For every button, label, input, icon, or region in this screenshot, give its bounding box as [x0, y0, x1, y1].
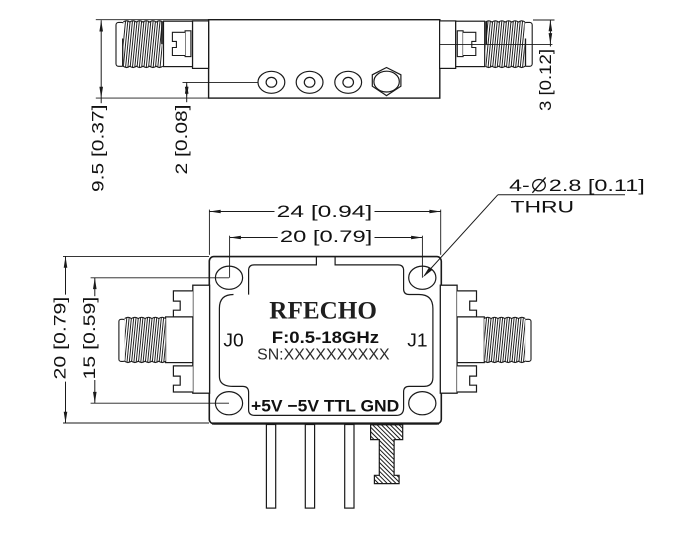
top view: right connector centre line: [440, 43, 553, 45]
svg-text:3 [0.12]: 3 [0.12]: [537, 49, 555, 111]
dimension 20 [0.79] top extension lines: [229, 236, 231, 278]
top view: right SMA slot insert outer: [457, 31, 463, 57]
svg-text:J0: J0: [223, 331, 243, 351]
front view: thick bottom edge: [212, 422, 439, 424]
dimension 9.5 [0.37] extension lines: [96, 19, 209, 21]
dimension 2 [0.08] extension line: [183, 81, 259, 83]
dimension 20 [0.79] left line and arrows: [65, 256, 67, 294]
top view: feed-through pin 3: [335, 71, 362, 93]
front view: left SMA threads: [119, 319, 125, 361]
front view: mounting hole top-left: [215, 266, 242, 289]
front view: right SMA flange: [440, 285, 457, 393]
front view: right SMA bottom mounting tab: [457, 366, 476, 392]
front view: mounting hole top-right: [409, 266, 436, 289]
svg-text:RFECHO: RFECHO: [269, 297, 377, 324]
dimension 3 [0.12] line and arrows: [549, 20, 551, 47]
front view: pin 2 (-5V): [305, 425, 314, 509]
svg-text:2 [0.08]: 2 [0.08]: [173, 105, 191, 175]
top view: right thread hatch: [484, 21, 528, 67]
front view: lid inner outline (top-left piece with tab cut): [249, 257, 317, 295]
front view: right thread hatch: [482, 318, 528, 362]
front view: right SMA bushing: [457, 317, 484, 363]
top view: feed-through pin 1: [258, 71, 285, 93]
top view: left thread start lines: [122, 39, 124, 67]
svg-text:SN:XXXXXXXXXX: SN:XXXXXXXXXX: [257, 346, 390, 363]
front view: pin 3 (TTL): [345, 425, 354, 509]
svg-text:20 [0.79]: 20 [0.79]: [52, 297, 70, 380]
front view: left SMA bottom mounting tab: [173, 366, 192, 392]
front view: pin 1 (+5V): [266, 425, 275, 509]
dimension 15 [0.59] line and arrows: [94, 278, 96, 296]
dimension 20 [0.79] top line and arrows: [230, 237, 278, 239]
front view: module body outline: [209, 257, 441, 424]
top view: left SMA connector rear body: [164, 21, 193, 66]
svg-text:9.5 [0.37]: 9.5 [0.37]: [90, 105, 108, 192]
top view: hex screw head: [372, 68, 401, 96]
front view: left SMA bushing: [166, 317, 193, 363]
top view: left SMA slot insert with notch: [172, 32, 185, 55]
dimension 3 [0.12] extension line: [533, 19, 555, 21]
dimension 20 [0.79] left extension lines: [63, 255, 209, 257]
hole callout leader line and arrow: [425, 195, 498, 276]
dimension 9.5 [0.37] line and arrows: [100, 20, 102, 103]
svg-text:24 [0.94]: 24 [0.94]: [277, 203, 373, 221]
svg-text:THRU: THRU: [511, 198, 575, 216]
front view: left thread hatch: [122, 318, 168, 362]
top view: right SMA slot insert with notch: [463, 32, 476, 55]
top view: feed-through pin 2: [296, 71, 323, 93]
front view: right SMA threads: [525, 319, 531, 361]
top view: left SMA threaded coupling outline: [116, 22, 124, 66]
front view: right SMA top mounting tab: [457, 291, 476, 317]
dimension 24 [0.94] line and arrows: [209, 211, 274, 213]
svg-text:2.8 [0.11]: 2.8 [0.11]: [549, 177, 645, 195]
svg-text:J1: J1: [407, 331, 427, 351]
top view: module body outline: [209, 20, 440, 98]
svg-text:15 [0.59]: 15 [0.59]: [81, 297, 99, 380]
front view: mounting hole bottom-left: [215, 392, 242, 415]
svg-text:4-: 4-: [509, 177, 530, 195]
top view: right SMA connector rear body: [456, 21, 485, 66]
svg-text:+5V −5V TTL GND: +5V −5V TTL GND: [251, 397, 399, 416]
dimension 15 [0.59] extension lines: [91, 277, 229, 279]
top view: right SMA connector flange: [440, 21, 456, 69]
top view: right thread start lines: [525, 39, 527, 67]
dimension 24 [0.94] extension lines: [208, 210, 210, 255]
dimension 2 [0.08] line and arrows: [186, 82, 188, 102]
front view: ground lug hatched head: [371, 425, 403, 484]
top view: left SMA slot insert outer: [185, 31, 191, 57]
top view: left thread hatch: [121, 21, 165, 67]
front view: left SMA top mounting tab: [173, 291, 192, 317]
top view: right SMA threaded coupling outline: [524, 22, 532, 66]
front view: lid inner outline (main): [219, 257, 433, 416]
svg-text:F:0.5-18GHz: F:0.5-18GHz: [272, 328, 379, 347]
svg-text:20 [0.79]: 20 [0.79]: [280, 228, 372, 246]
top view: left SMA connector flange: [193, 21, 209, 69]
front view: left SMA flange: [193, 285, 210, 393]
front view: mounting hole bottom-right: [409, 392, 436, 415]
